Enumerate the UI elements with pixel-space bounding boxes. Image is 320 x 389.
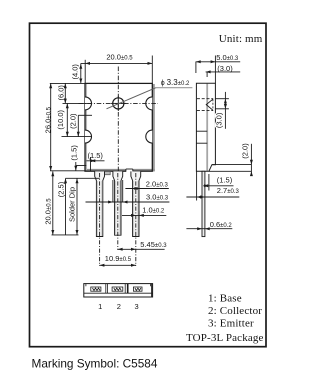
svg-text:1: Base: 1: Base [208,293,242,305]
svg-text:2: Collector: 2: Collector [208,305,262,317]
dim line 2.0 pin [125,188,168,190]
ext 5.0 right [214,56,216,84]
dim line 10.0 [66,103,68,136]
solder dip level line [66,177,100,179]
svg-text:3: Emitter: 3: Emitter [208,318,254,330]
side body gray division band [206,84,208,171]
dim line 2.0 rot [250,144,252,175]
ext 5.0 left [195,62,197,74]
svg-text:(3.0): (3.0) [215,112,224,128]
svg-text:(2.0): (2.0) [241,143,250,159]
countersink back dashed [212,99,214,110]
ext line notch row1 [63,102,93,104]
dim line 1.5 side [203,185,233,187]
right notch row1 [146,97,152,110]
bottom view divisions [105,284,107,294]
hidden hole line top [197,98,213,100]
svg-text:(3.0): (3.0) [217,64,233,73]
dim line 10.9 [100,264,136,266]
ext 3.0 rot top [215,98,229,100]
left notch row1 [85,97,92,110]
body gray left inner band [85,84,87,170]
body outline [85,83,152,171]
dim line 5.0 [196,61,240,63]
hidden hole line bottom [197,110,213,112]
dim line 1.5 rot [75,162,77,171]
dim line 2.7 [186,196,239,198]
svg-text:(2.0): (2.0) [69,113,78,129]
dim line 1.0 pin [122,214,166,216]
dim line 6.0 [64,83,66,103]
pin 3 centerline [135,173,137,266]
leader line to hole dia [107,88,157,109]
bottom pin 3 section [133,287,142,291]
ext 2.0 bottom [209,170,251,172]
bottom view end ticks [85,284,87,287]
mold tab below bottom edge [104,172,110,175]
mounting hole [113,98,124,109]
side pin [202,171,205,236]
pin 2 centerline [117,173,119,250]
ext pin2 wide left [112,180,114,202]
svg-text:TOP-3L Package: TOP-3L Package [186,332,264,344]
side mold step tick 2 [196,142,207,144]
dim line 5.45 [118,248,165,250]
ext pin2 wide right [122,180,124,202]
svg-text:(2.5): (2.5) [56,181,65,197]
dim line 26.0 [50,83,52,170]
ext pin3 right edge [138,211,140,219]
right notch row2 [146,130,152,143]
bottom view body [84,284,153,297]
svg-text:(10.0): (10.0) [56,110,65,130]
pin inner gray strips [97,181,138,236]
bottom view lower band line [84,292,153,294]
arrows side dims [196,60,201,63]
ext line top left corner [84,60,86,84]
ext 2.7 mold face [196,171,198,200]
svg-text:2: 2 [117,302,121,311]
pin 1 [95,171,105,236]
arrows pin dims [134,187,139,190]
left notch row2 [85,130,92,143]
pin 1 centerline [99,173,101,266]
svg-text:1: 1 [98,302,102,311]
horizontal centerline [79,102,159,104]
pin 2 [113,171,123,235]
ext pin tip level [52,234,79,236]
bottom pin 2 section [112,287,123,291]
side body outline [196,83,215,171]
svg-text:Marking Symbol: C5584: Marking Symbol: C5584 [32,357,158,371]
svg-text:3: 3 [135,302,139,311]
body gray bottom edge band [85,169,154,172]
pin 3 [131,171,141,236]
dim line 3.0 rot [224,92,226,129]
ext 1.5 side [208,174,210,191]
dim line 4.0 [80,63,82,83]
bottom pin 1 section [91,287,101,291]
svg-text:(1.5): (1.5) [69,145,78,161]
dim line 20.0 solder [52,171,54,234]
ext 3.0 top [206,72,208,77]
vertical centerline [117,67,119,172]
ext line notch row2 [62,136,93,138]
ext body bottom to left [50,170,85,172]
dim line 2.5 [65,178,67,234]
solder dip extent line [76,178,78,234]
body gray right edge band [152,84,154,171]
dim line 2.0 left [77,115,79,136]
drawing frame border [30,23,267,347]
countersink V [206,99,213,110]
ext 2.0 top [212,164,251,166]
centerline solid crossings at hole [117,96,119,111]
tick 2.0 top [78,114,92,116]
dim line 0.6 [186,228,232,230]
ext line top right corner [151,56,153,84]
svg-text:Unit: mm: Unit: mm [219,33,263,45]
svg-text:(1.5): (1.5) [88,151,104,160]
ext 1.5 tab edge [90,157,92,171]
ext 3.0 rot bottom [215,108,229,110]
svg-text:(1.5): (1.5) [217,176,233,185]
side dims [186,56,251,229]
dim line 3.0 pin [86,201,170,203]
svg-text:(6.0): (6.0) [57,85,66,101]
dim line 3.0 top [206,71,241,73]
dim line 1.5 horizontal [86,160,104,162]
bottom edge recess [126,169,133,172]
svg-text:(4.0): (4.0) [71,64,80,80]
arrows top dims [85,62,90,65]
dim line 20.0 top [81,62,153,64]
svg-text:Solder Dip: Solder Dip [68,187,77,222]
side mold step tick 1 [196,130,207,132]
ext line body top to left [50,82,85,84]
tick 1.5 step [76,165,86,167]
